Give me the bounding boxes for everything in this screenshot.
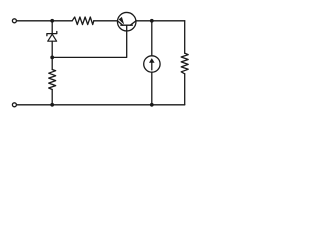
wire: R1 to transistor Q1 — [94, 20, 118, 22]
wire: R2 bottom lead to bottom rail — [51, 90, 53, 105]
transistor Q1 (PNP, emitter left, collector right, base down) — [117, 12, 136, 31]
wire: I1 bottom to bottom rail — [151, 72, 153, 105]
wire: zener anode down to node A — [51, 41, 53, 69]
node top of zener — [50, 19, 54, 23]
wire: Q1 collector to right rail — [136, 20, 185, 22]
resistor R2 (left vertical, emitter resistor) — [49, 70, 56, 90]
wire: top node to current source I1 — [151, 21, 153, 56]
wire: Q1 base down and left to node A — [52, 25, 127, 57]
wire: right rail bottom — [184, 74, 186, 105]
terminal bottom-left input — [12, 103, 16, 107]
node top of current source — [150, 19, 154, 23]
node bottom left — [50, 103, 54, 107]
current source I1 (arrow up) — [144, 56, 160, 72]
zener diode D1 (cathode up) — [47, 32, 57, 42]
wire bottom rail — [17, 104, 185, 106]
resistor R1 (top horizontal) — [72, 17, 94, 25]
wire: right rail top — [184, 21, 186, 53]
resistor R3 (right vertical load) — [181, 53, 188, 74]
node bottom of current source — [150, 103, 154, 107]
wire top: terminal to resistor R1 — [17, 20, 72, 22]
wire: zener cathode lead from top node — [51, 21, 53, 33]
terminal top-left input — [12, 19, 16, 23]
node A (zener/base/resistor junction) — [50, 56, 54, 60]
